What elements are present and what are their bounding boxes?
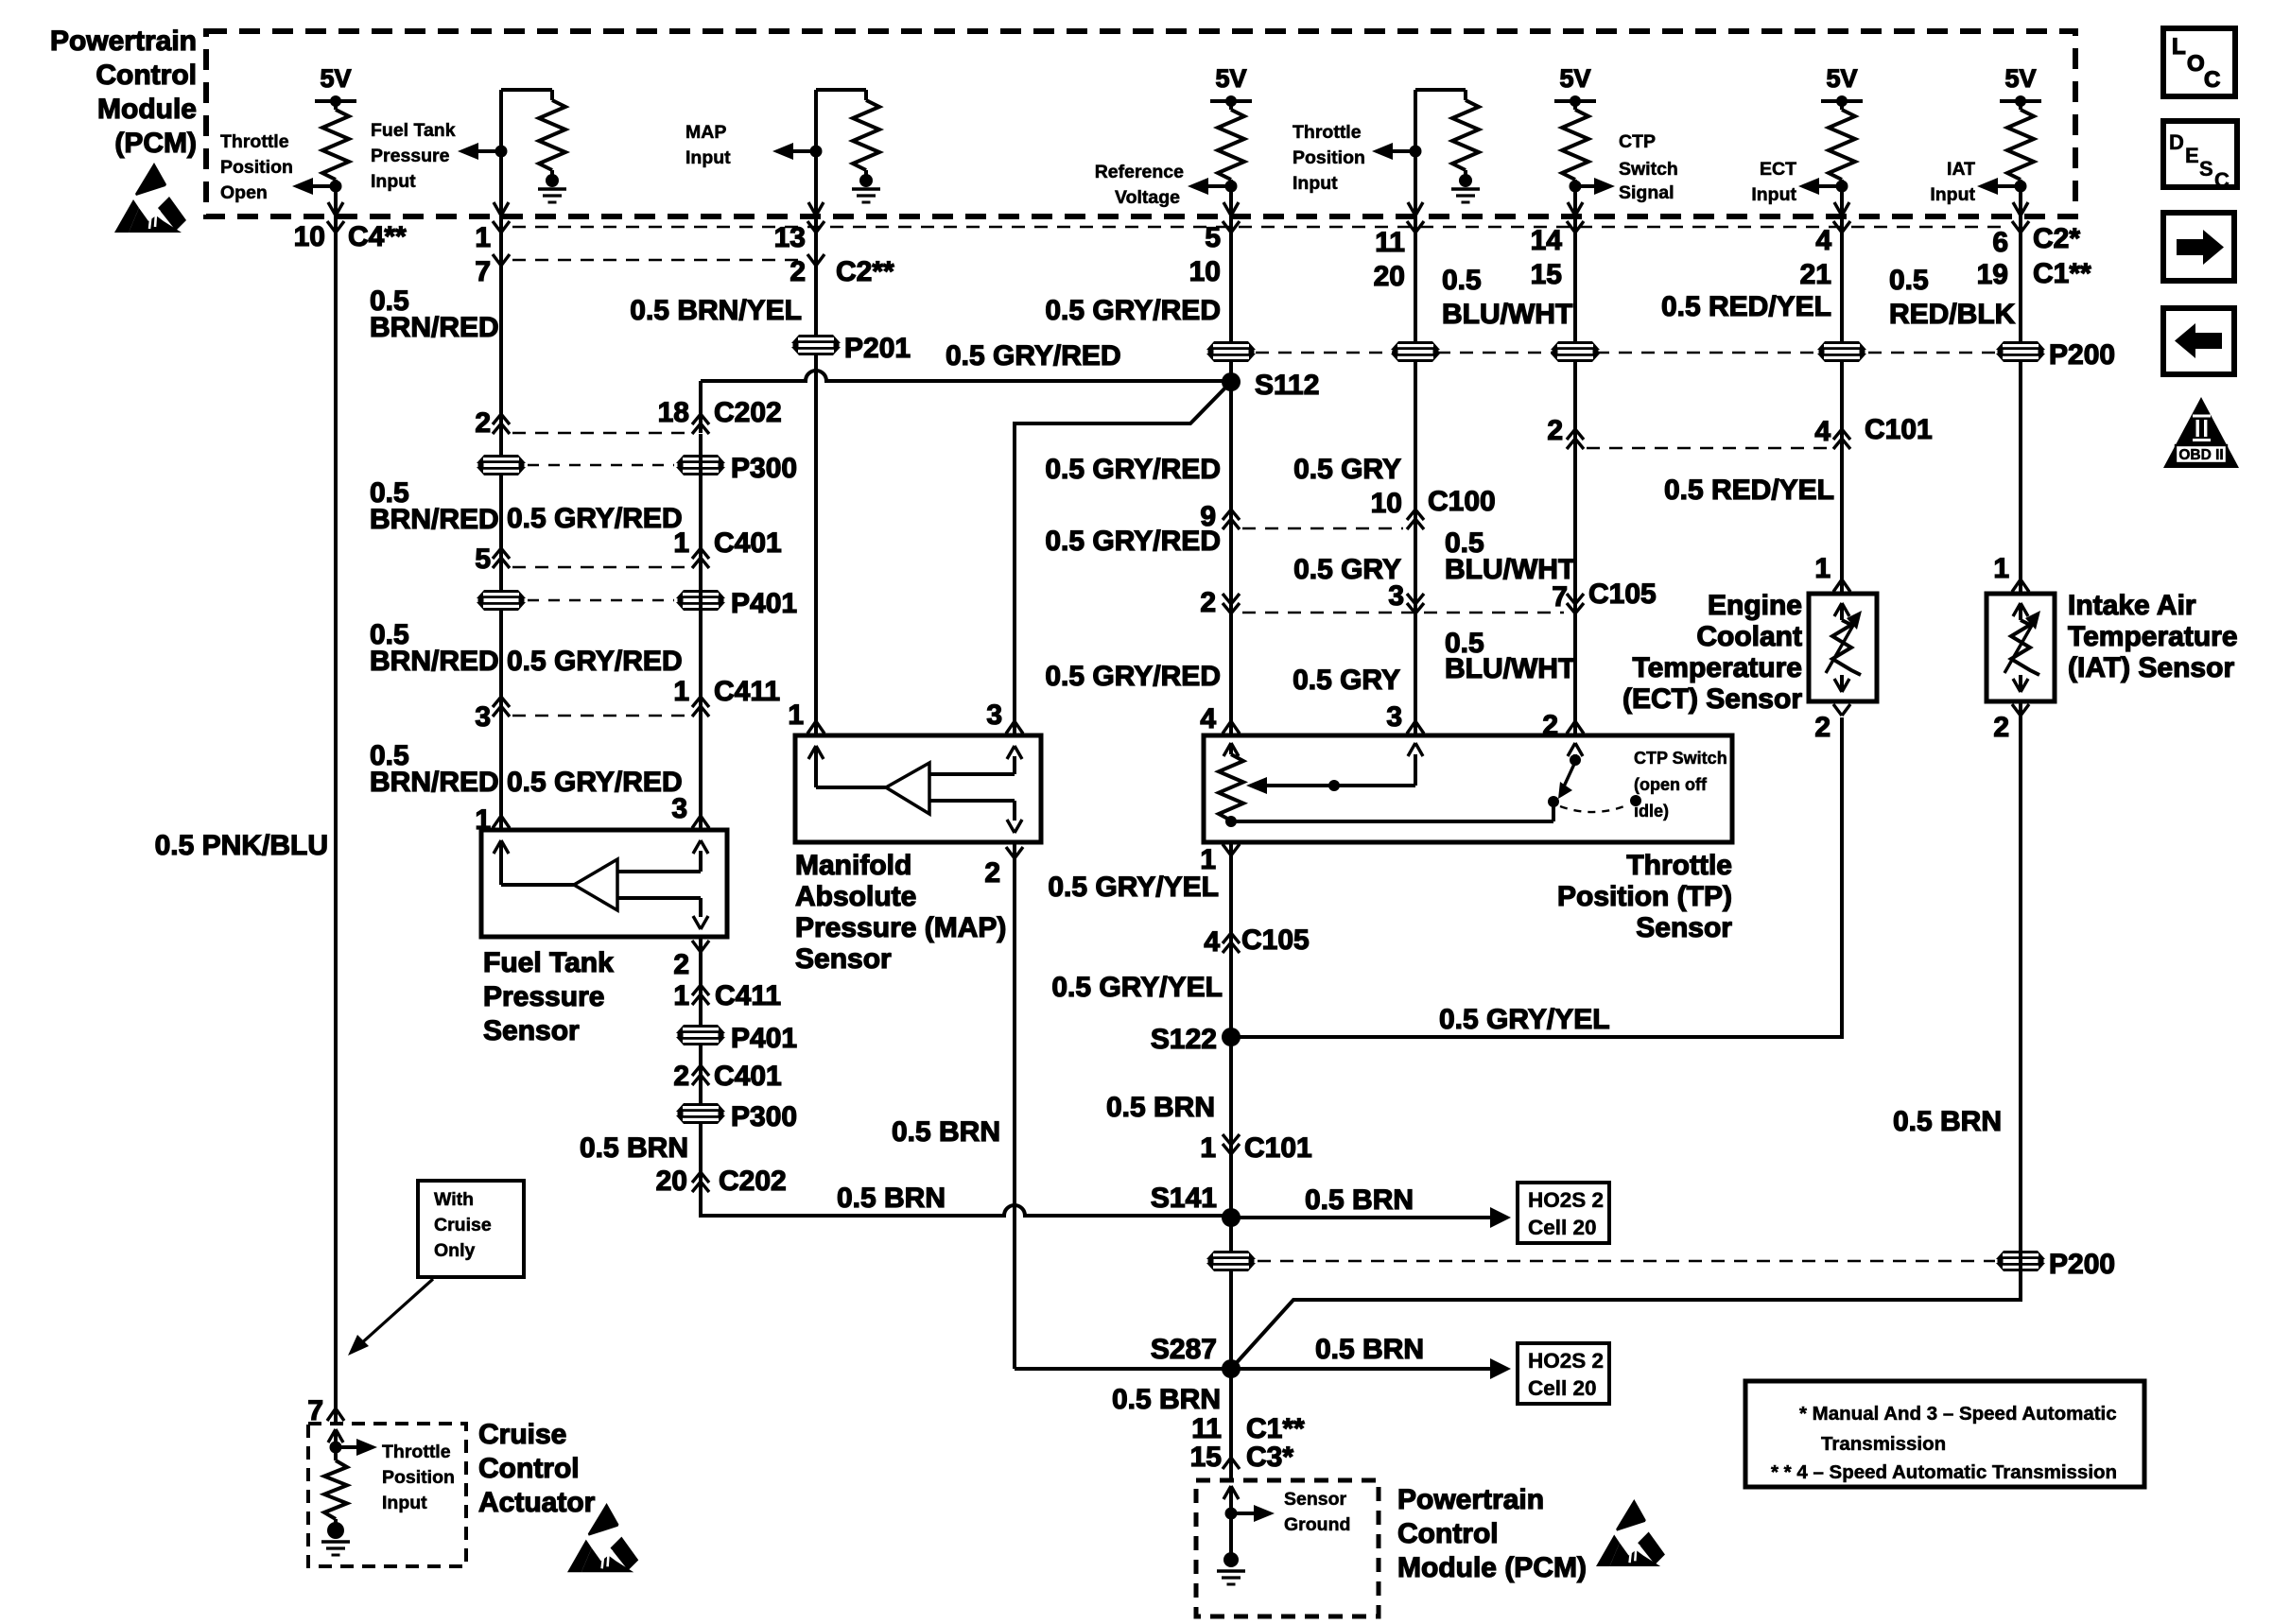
svg-text:20: 20	[1374, 261, 1405, 292]
pin 1 out of TP sensor	[1223, 844, 1231, 855]
svg-text:C3*: C3*	[1246, 1442, 1293, 1473]
svg-text:S141: S141	[1151, 1183, 1217, 1214]
svg-text:4: 4	[1204, 926, 1220, 958]
resistor: CTP Switch Signal pull-up	[1562, 110, 1588, 180]
svg-text:4: 4	[1200, 703, 1216, 734]
FT sensor internal amplifier drawing	[494, 840, 501, 854]
connector row 1 dashed link line (C2*)	[512, 226, 2010, 229]
svg-text:C401: C401	[714, 1061, 782, 1092]
pin 2 out of ECT sensor	[1833, 704, 1842, 716]
wire: vertical drop from S112 wire to C202 pin 18	[699, 381, 703, 433]
svg-text:7: 7	[475, 256, 491, 287]
svg-text:0.5 GRY/RED: 0.5 GRY/RED	[507, 503, 683, 534]
connector C411 return row: pin 1	[692, 985, 709, 995]
wire: S287 branch to HO2S 2 with arrow	[1231, 1367, 1490, 1371]
svg-text:Pressure (MAP): Pressure (MAP)	[795, 912, 1006, 943]
svg-text:Input: Input	[382, 1493, 427, 1513]
svg-text:Input: Input	[1751, 184, 1796, 205]
svg-text:HO2S 2: HO2S 2	[1528, 1349, 1604, 1373]
svg-text:Cell 20: Cell 20	[1528, 1216, 1597, 1239]
svg-text:Input: Input	[685, 147, 731, 168]
wire: reference column x=1302 below TP sensor down into bottom PCM	[1229, 842, 1233, 1480]
svg-text:Cruise: Cruise	[434, 1215, 492, 1235]
svg-text:S122: S122	[1151, 1024, 1217, 1055]
svg-text:2: 2	[475, 407, 491, 439]
svg-text:Position: Position	[382, 1467, 455, 1488]
svg-text:2: 2	[1814, 712, 1831, 743]
svg-text:5V: 5V	[320, 64, 351, 93]
signal arrow: ECT Input	[1798, 178, 1819, 195]
svg-text:3: 3	[475, 701, 491, 733]
component box: Engine Coolant Temperature (ECT) Sensor	[1809, 594, 1877, 701]
svg-text:P401: P401	[731, 588, 797, 619]
grommet P200-row pass-through at x=1497	[1391, 341, 1440, 362]
ESD sensitivity symbol near cruise actuator	[567, 1503, 638, 1572]
wire: IAT return column down and across to S287	[1231, 701, 2021, 1369]
connector C101 bottom row: pin 1	[1223, 1144, 1240, 1154]
svg-text:With: With	[434, 1189, 474, 1210]
svg-text:10: 10	[1189, 256, 1221, 287]
connector C401 row: pin 5 to pin 1 dashed link	[512, 566, 690, 569]
grommet P200-row pass-through at x=1666	[1551, 341, 1600, 362]
connector C202 row: pin 2 to pin 18 dashed link	[512, 432, 690, 435]
svg-text:Throttle: Throttle	[1293, 122, 1362, 143]
svg-text:10: 10	[1371, 488, 1402, 519]
svg-text:Intake Air: Intake Air	[2068, 590, 2196, 621]
pin chevron row2 at x=530	[493, 254, 501, 266]
wire: C202 sensor-feed column x=741 from S112 wire down to sensor	[699, 434, 703, 830]
svg-text:Temperature: Temperature	[2068, 621, 2238, 652]
wire: IAT column x=2137 upper part	[2019, 216, 2022, 594]
svg-text:5V: 5V	[1559, 64, 1590, 93]
svg-text:19: 19	[1977, 259, 2008, 290]
svg-text:Fuel Tank: Fuel Tank	[371, 120, 456, 141]
svg-text:5: 5	[475, 544, 491, 575]
svg-text:Control: Control	[1397, 1518, 1499, 1549]
CTP switch inside TP sensor	[1231, 820, 1553, 823]
signal arrow: Sensor Ground	[1254, 1505, 1275, 1522]
svg-text:Module: Module	[97, 94, 197, 125]
svg-text:0.5 BRN/YEL: 0.5 BRN/YEL	[630, 295, 802, 326]
svg-text:OBD II: OBD II	[2178, 447, 2223, 463]
ESD sensitivity symbol bottom-center	[1596, 1499, 1665, 1566]
splice S141 dot	[1222, 1208, 1241, 1227]
svg-text:P300: P300	[731, 1101, 797, 1132]
component box: Manifold Absolute Pressure (MAP) Sensor	[795, 735, 1041, 842]
connector row 2 dashed link line (C2**)	[512, 259, 807, 262]
connector C101 top row: pin 2 to pin 4 dashed link	[1587, 447, 1829, 450]
svg-text:Open: Open	[220, 182, 268, 203]
pointer arrow from With-Cruise-Only box	[359, 1279, 433, 1345]
pin chevron row2 at x=863	[807, 254, 816, 266]
svg-text:Temperature: Temperature	[1632, 652, 1802, 683]
node: junction dot on TP-Open wire	[330, 181, 342, 193]
wire: S122 branch to ECT sensor return	[1231, 717, 1842, 1037]
MAP sensor internal amplifier drawing	[808, 746, 816, 759]
svg-text:MAP: MAP	[685, 122, 726, 143]
svg-text:10: 10	[294, 221, 325, 252]
svg-text:C1**: C1**	[2033, 258, 2091, 289]
pin chevron row1 at x=1302	[1223, 221, 1231, 233]
cruise actuator internal resistor to ground	[328, 1429, 336, 1443]
svg-text:2: 2	[984, 857, 1000, 889]
svg-text:0.5 GRY/RED: 0.5 GRY/RED	[1045, 661, 1221, 692]
svg-text:5V: 5V	[2004, 64, 2036, 93]
svg-text:1: 1	[1200, 1132, 1216, 1164]
grommet pass-through below S141	[1206, 1251, 1256, 1271]
svg-text:C202: C202	[714, 397, 782, 428]
note box: transmission footnotes	[1745, 1381, 2144, 1487]
svg-text:Only: Only	[434, 1240, 475, 1261]
svg-text:Transmission: Transmission	[1821, 1433, 1946, 1455]
svg-text:C202: C202	[719, 1166, 787, 1197]
svg-text:0.5 GRY/RED: 0.5 GRY/RED	[507, 646, 683, 677]
node: junction dot cruise TP input	[330, 1442, 342, 1454]
ESD sensitivity symbol top-left	[114, 163, 186, 233]
pin chevron row1 at x=2137	[2012, 221, 2021, 233]
svg-text:BLU/WHT: BLU/WHT	[1442, 299, 1572, 330]
node: junction dot on IAT wire	[2015, 181, 2027, 193]
reference box: HO2S 2 Cell 20 (upper)	[1518, 1183, 1609, 1243]
wire: S112 branch diagonal to MAP sensor pin 3 column	[1015, 382, 1231, 735]
svg-text:5V: 5V	[1826, 64, 1857, 93]
MAP Input cell: wire, bias resistor and ground	[816, 88, 866, 92]
svg-text:Pressure: Pressure	[371, 146, 450, 166]
svg-text:C411: C411	[715, 980, 781, 1011]
svg-text:2: 2	[1993, 712, 2009, 743]
svg-text:(IAT) Sensor: (IAT) Sensor	[2068, 652, 2234, 683]
node: junction dot on CTP wire	[1570, 181, 1582, 193]
svg-text:P200: P200	[2049, 339, 2115, 371]
svg-text:Module (PCM): Module (PCM)	[1397, 1552, 1587, 1583]
svg-text:Sensor: Sensor	[795, 943, 892, 975]
Fuel Tank Pressure Input cell: wire, bias resistor and ground	[501, 88, 552, 92]
wire: Throttle Position input column x=1497	[1414, 216, 1417, 735]
svg-text:0.5 BRN: 0.5 BRN	[1305, 1184, 1414, 1216]
sensor ground wire inside bottom PCM	[1223, 1486, 1231, 1499]
resistor: Reference Voltage pull-up	[1218, 110, 1244, 180]
reference box: HO2S 2 Cell 20 (lower)	[1518, 1343, 1609, 1404]
svg-text:C100: C100	[1428, 486, 1496, 517]
connector C105 row: pins 2/3/7 dashed link	[1242, 612, 1564, 614]
svg-text:Manifold: Manifold	[795, 850, 911, 881]
wire: ECT column x=1948 upper part	[1840, 216, 1844, 594]
icon: OBD II triangle	[2163, 397, 2239, 468]
connector C100 row: pin 9 to pin 10 dashed link	[1242, 527, 1403, 530]
signal arrow: Reference Voltage	[1188, 178, 1208, 195]
svg-text:0.5 GRY: 0.5 GRY	[1293, 554, 1401, 585]
ground symbol in bottom PCM	[1223, 1552, 1239, 1567]
svg-text:Position (TP): Position (TP)	[1557, 881, 1732, 912]
icon box: arrow right	[2163, 213, 2234, 281]
svg-text:15: 15	[1190, 1442, 1222, 1473]
svg-text:5: 5	[1205, 222, 1221, 253]
svg-text:C4**: C4**	[348, 221, 407, 252]
svg-text:3: 3	[1386, 701, 1402, 733]
svg-text:Reference: Reference	[1095, 162, 1184, 182]
connector C105 row (sensor ground): pin 4	[1223, 933, 1240, 943]
wire: Fuel Tank Pressure signal column x=530	[499, 216, 503, 830]
svg-text:0.5 BRN: 0.5 BRN	[1315, 1334, 1424, 1365]
svg-text:CTP: CTP	[1619, 131, 1656, 152]
svg-text:1: 1	[673, 527, 689, 559]
svg-text:BRN/RED: BRN/RED	[370, 646, 499, 677]
pin chevron row1 at x=863	[807, 221, 816, 233]
grommet P401 pair with dashed link	[528, 599, 674, 601]
svg-text:11: 11	[1375, 227, 1405, 258]
svg-text:2: 2	[1547, 415, 1563, 446]
grommet P200-row pass-through at x=1302	[1206, 341, 1256, 362]
svg-text:0.5 BRN: 0.5 BRN	[1106, 1092, 1215, 1123]
node: junction dot on Reference Voltage wire	[1225, 181, 1238, 193]
svg-text:BRN/RED: BRN/RED	[370, 312, 499, 343]
svg-text:RED/BLK: RED/BLK	[1889, 299, 2016, 330]
icon box: DESC	[2163, 121, 2237, 187]
svg-text:D: D	[2169, 130, 2184, 154]
svg-text:Position: Position	[220, 157, 293, 178]
svg-text:1: 1	[1993, 553, 2009, 584]
svg-text:0.5 BRN: 0.5 BRN	[837, 1183, 946, 1214]
svg-text:1: 1	[673, 676, 689, 707]
svg-text:(PCM): (PCM)	[114, 128, 197, 159]
grommet P300 pair with dashed link	[528, 464, 674, 466]
svg-text:P300: P300	[731, 453, 797, 484]
svg-text:BLU/WHT: BLU/WHT	[1445, 653, 1575, 684]
svg-text:C105: C105	[1588, 579, 1657, 610]
svg-text:0.5 GRY/YEL: 0.5 GRY/YEL	[1048, 872, 1219, 903]
svg-text:Input: Input	[1930, 184, 1975, 205]
svg-text:11: 11	[1191, 1413, 1222, 1444]
svg-text:7: 7	[1552, 581, 1568, 613]
Throttle Position Input cell: wire, bias resistor and ground	[1415, 88, 1466, 92]
svg-text:C2*: C2*	[2033, 223, 2080, 254]
svg-text:P200: P200	[2049, 1249, 2115, 1280]
svg-text:C101: C101	[1244, 1132, 1312, 1164]
component box: Fuel Tank Pressure Sensor	[481, 830, 727, 937]
wire: Reference Voltage column x=1302 upper part	[1229, 216, 1233, 735]
svg-text:P201: P201	[844, 333, 911, 364]
wire: S141 branch to HO2S 2 with arrow	[1231, 1216, 1490, 1219]
svg-text:O: O	[2187, 51, 2205, 77]
svg-text:Throttle: Throttle	[1626, 850, 1732, 881]
PCM top dashed enclosure box	[206, 31, 2075, 216]
dashed alignment line to P200 (bottom)	[1258, 1260, 1995, 1263]
svg-text:Position: Position	[1293, 147, 1365, 168]
svg-text:Ground: Ground	[1284, 1514, 1350, 1535]
wire: S287 feed from MAP return column	[1015, 1367, 1231, 1371]
grommet P201 on MAP column	[791, 335, 841, 355]
svg-text:0.5 GRY/RED: 0.5 GRY/RED	[1045, 454, 1221, 485]
svg-text:Control: Control	[478, 1453, 580, 1484]
component dashed box: Cruise Control Actuator	[308, 1424, 466, 1566]
svg-text:5V: 5V	[1215, 64, 1246, 93]
note box: With Cruise Only	[418, 1181, 524, 1277]
grommet P200-row pass-through at x=1948	[1817, 341, 1866, 362]
TP sensor potentiometer	[1223, 743, 1231, 756]
svg-text:21: 21	[1800, 259, 1831, 290]
node: junction dot on ECT wire	[1836, 181, 1848, 193]
grommet P401 (return)	[676, 1025, 725, 1045]
dashed alignment line of P200 pass-through row	[1256, 352, 1996, 354]
signal arrow: MAP Input	[772, 143, 793, 160]
node: junction dot sensor ground branch	[1225, 1508, 1238, 1520]
svg-text:0.5: 0.5	[1889, 265, 1929, 296]
svg-text:2: 2	[789, 256, 806, 287]
svg-text:2: 2	[673, 949, 689, 980]
svg-text:IAT: IAT	[1947, 159, 1975, 180]
svg-text:C: C	[2214, 168, 2230, 192]
svg-text:* Manual And 3 – Speed Automat: * Manual And 3 – Speed Automatic	[1799, 1403, 2117, 1425]
TP wiper arm with arrowhead and dot	[1246, 777, 1267, 794]
pin 2 out of MAP sensor	[1006, 847, 1015, 858]
signal arrow: IAT Input	[1977, 178, 1998, 195]
PCM bottom dashed box (sensor ground)	[1196, 1480, 1379, 1616]
pin chevron row1 at x=1497	[1407, 221, 1415, 233]
svg-text:C401: C401	[714, 527, 782, 559]
svg-text:0.5 PNK/BLU: 0.5 PNK/BLU	[155, 830, 328, 861]
wire: pin 10 C4** down-arrow at PCM border	[328, 202, 336, 216]
svg-text:ECT: ECT	[1760, 159, 1796, 180]
svg-text:S112: S112	[1255, 370, 1319, 401]
svg-text:0.5 GRY/RED: 0.5 GRY/RED	[507, 767, 683, 798]
svg-text:Sensor: Sensor	[483, 1015, 580, 1046]
splice S112 dot	[1222, 372, 1241, 391]
svg-text:Engine: Engine	[1708, 590, 1802, 621]
svg-text:S: S	[2199, 157, 2213, 181]
svg-text:Sensor: Sensor	[1636, 912, 1732, 943]
svg-text:1: 1	[1814, 553, 1831, 584]
svg-text:Input: Input	[371, 171, 416, 192]
wire: MAP signal column x=863	[814, 216, 818, 735]
svg-text:13: 13	[774, 222, 806, 253]
svg-text:4: 4	[1814, 416, 1831, 447]
svg-text:0.5 GRY/RED: 0.5 GRY/RED	[946, 340, 1121, 371]
connector C401 return row: pin 2	[692, 1065, 709, 1076]
svg-text:0.5 GRY: 0.5 GRY	[1293, 665, 1400, 696]
resistor: ECT Input pull-up	[1829, 110, 1855, 180]
svg-text:CTP Switch: CTP Switch	[1634, 749, 1727, 768]
svg-text:P401: P401	[731, 1023, 797, 1054]
svg-text:Absolute: Absolute	[795, 881, 916, 912]
svg-text:0.5: 0.5	[1442, 265, 1482, 296]
icon box: LOC	[2163, 28, 2235, 96]
svg-text:Fuel Tank: Fuel Tank	[483, 947, 614, 978]
svg-text:BRN/RED: BRN/RED	[370, 767, 499, 798]
svg-text:Sensor: Sensor	[1284, 1489, 1347, 1510]
svg-text:0.5 GRY/YEL: 0.5 GRY/YEL	[1439, 1004, 1610, 1035]
svg-text:Cell 20: Cell 20	[1528, 1376, 1597, 1400]
svg-text:0.5 BRN: 0.5 BRN	[1112, 1384, 1221, 1415]
svg-text:Pressure: Pressure	[483, 981, 604, 1012]
svg-text:18: 18	[658, 397, 689, 428]
svg-text:BRN/RED: BRN/RED	[370, 504, 499, 535]
svg-text:Powertrain: Powertrain	[1397, 1484, 1544, 1515]
wire: S112 horizontal feed to C202 pin 18 (hops over MAP column)	[701, 371, 1231, 381]
svg-text:Voltage: Voltage	[1115, 187, 1180, 208]
wire: CTP switch column x=1666	[1573, 216, 1577, 735]
grommet P200 on IAT column	[1996, 341, 2045, 362]
svg-text:E: E	[2185, 144, 2199, 167]
ground symbol in cruise actuator	[334, 1519, 338, 1524]
svg-text:C2**: C2**	[836, 256, 894, 287]
svg-text:0.5 RED/YEL: 0.5 RED/YEL	[1661, 291, 1831, 322]
svg-text:15: 15	[1531, 259, 1562, 290]
svg-text:C411: C411	[714, 676, 780, 707]
signal arrow: Throttle Position Input (cruise)	[356, 1439, 377, 1456]
svg-text:2: 2	[1200, 587, 1216, 618]
resistor: IAT Input pull-up	[2007, 110, 2034, 180]
svg-text:idle): idle)	[1634, 802, 1669, 821]
svg-text:Switch: Switch	[1619, 159, 1678, 180]
pin chevron row1 at x=530	[493, 221, 501, 233]
svg-text:Cruise: Cruise	[478, 1419, 566, 1450]
connector C202 return row: pin 20	[692, 1172, 709, 1183]
svg-text:Actuator: Actuator	[478, 1487, 596, 1518]
svg-text:L: L	[2172, 34, 2186, 60]
connector C411 row: pin 3 to pin 1 dashed link	[512, 715, 690, 717]
svg-text:(ECT) Sensor: (ECT) Sensor	[1622, 683, 1802, 715]
pin 2 out of Fuel Tank Pressure Sensor	[692, 941, 701, 952]
svg-text:C105: C105	[1241, 924, 1310, 956]
svg-text:1: 1	[475, 222, 491, 253]
component box: Throttle Position (TP) Sensor	[1204, 735, 1732, 842]
svg-text:1: 1	[673, 980, 689, 1011]
svg-text:0.5 GRY/YEL: 0.5 GRY/YEL	[1051, 972, 1223, 1003]
signal arrow: Throttle Position Open	[292, 178, 313, 195]
svg-text:3: 3	[986, 700, 1002, 731]
wire: S141 feed from C202 pin 20 (hops over MAP return column)	[701, 1192, 1231, 1216]
svg-text:Throttle: Throttle	[220, 131, 289, 152]
svg-text:Control: Control	[95, 60, 197, 91]
svg-text:C101: C101	[1865, 414, 1933, 445]
svg-text:0.5 GRY/RED: 0.5 GRY/RED	[1045, 526, 1221, 557]
svg-text:Coolant: Coolant	[1696, 621, 1802, 652]
component box: Intake Air Temperature (IAT) Sensor	[1987, 594, 2055, 701]
svg-text:4: 4	[1815, 225, 1831, 256]
signal arrow: Throttle Position Input	[1372, 143, 1393, 160]
svg-text:0.5 GRY: 0.5 GRY	[1293, 454, 1401, 485]
svg-text:3: 3	[671, 793, 687, 824]
pin 2 out of IAT sensor	[2012, 704, 2021, 716]
svg-text:2: 2	[673, 1061, 689, 1092]
grommet P300 (return)	[676, 1103, 725, 1124]
splice S122 dot	[1222, 1028, 1241, 1046]
svg-text:3: 3	[1388, 580, 1404, 612]
icon box: arrow left	[2163, 308, 2234, 374]
svg-text:Input: Input	[1293, 173, 1338, 194]
svg-text:0.5 RED/YEL: 0.5 RED/YEL	[1664, 475, 1834, 506]
svg-text:0.5 BRN: 0.5 BRN	[580, 1132, 688, 1164]
ECT thermistor symbol	[1834, 603, 1842, 616]
signal arrow: Fuel Tank Pressure Input	[458, 143, 478, 160]
svg-text:C1**: C1**	[1246, 1413, 1305, 1444]
svg-text:Signal: Signal	[1619, 182, 1674, 203]
wire: sensor ground return column x=741 below FT sensor	[699, 937, 703, 1216]
svg-text:C: C	[2204, 67, 2220, 93]
CTP switch alternate-position dashed arc and dot	[1560, 804, 1629, 812]
svg-text:20: 20	[656, 1166, 687, 1197]
svg-text:14: 14	[1531, 225, 1563, 256]
svg-text:6: 6	[1992, 227, 2008, 258]
signal arrow: CTP Switch Signal (points right)	[1594, 178, 1615, 195]
resistor: Throttle Position Open pull-up	[322, 110, 349, 180]
splice S287 dot	[1222, 1359, 1241, 1378]
grommet P200 (bottom) on IAT return	[1996, 1251, 2045, 1271]
svg-text:0.5 GRY/RED: 0.5 GRY/RED	[1045, 295, 1221, 326]
svg-text:Powertrain: Powertrain	[50, 26, 197, 57]
wire: MAP ground return column x=1073	[1013, 842, 1016, 1369]
svg-text:(open off: (open off	[1634, 775, 1708, 794]
